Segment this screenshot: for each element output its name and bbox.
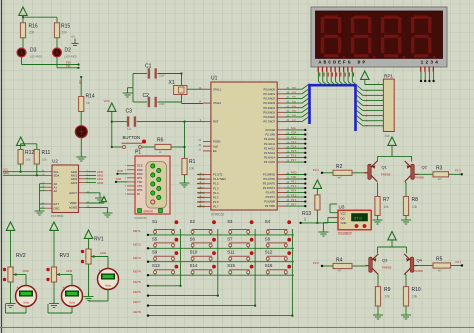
svg-text:R5: R5 [436,257,443,263]
svg-text:P3.2/INT0: P3.2/INT0 [263,182,276,186]
svg-text:P3.7: P3.7 [291,202,297,206]
svg-text:10k: 10k [385,295,391,299]
svg-text:D3: D3 [30,48,37,54]
svg-text:Volts: Volts [105,284,112,288]
svg-text:KEY8: KEY8 [133,310,141,314]
svg-text:P3.2: P3.2 [291,180,297,184]
svg-text:P2.4/A12: P2.4/A12 [264,146,276,150]
svg-text:10k: 10k [189,167,195,171]
svg-text:R14: R14 [86,94,95,100]
svg-text:+: + [63,285,65,289]
svg-text:10k: 10k [412,205,418,209]
svg-text:AIN1: AIN1 [66,269,73,273]
svg-text:RV1: RV1 [94,237,104,243]
svg-text:C2: C2 [143,93,150,99]
svg-text:10k: 10k [42,158,47,162]
svg-text:10k: 10k [384,205,390,209]
svg-text:R3: R3 [436,166,443,172]
svg-text:4k7: 4k7 [338,176,343,180]
svg-text:Q2: Q2 [422,165,428,170]
svg-text:KEY7: KEY7 [133,300,141,304]
svg-text:U3: U3 [339,205,345,210]
svg-text:P2.2/A10: P2.2/A10 [264,137,276,141]
svg-text:P20: P20 [66,60,71,64]
svg-text:U2: U2 [52,159,58,164]
svg-text:OSC: OSC [54,206,60,210]
svg-text:S12: S12 [265,250,273,255]
svg-text:AT89C52: AT89C52 [211,213,224,217]
svg-text:S6: S6 [190,236,196,241]
svg-text:R11: R11 [42,150,51,156]
svg-text:ABCDEFG DP: ABCDEFG DP [319,59,368,65]
svg-text:PN4356: PN4356 [381,173,391,177]
svg-text:P2.3: P2.3 [291,140,297,144]
svg-text:TXD: TXD [291,175,296,179]
svg-text:TXD: TXD [137,180,142,184]
svg-text:P3.3: P3.3 [291,184,297,188]
svg-text:P1: P1 [135,150,141,156]
svg-text:RST: RST [213,120,219,124]
svg-text:X1: X1 [169,80,175,86]
svg-text:COMPIM: COMPIM [134,216,147,220]
svg-text:10k: 10k [26,158,31,162]
svg-text:1k: 1k [86,101,90,105]
svg-text:C1: C1 [145,64,152,70]
svg-text:P3.4: P3.4 [291,189,297,193]
svg-text:P3.1/TXD: P3.1/TXD [263,177,275,181]
svg-text:R1: R1 [189,159,196,165]
svg-text:P2.5/A13: P2.5/A13 [264,151,276,155]
svg-text:P21: P21 [66,64,71,68]
svg-text:P2.4: P2.4 [313,168,319,172]
svg-text:22pF: 22pF [159,103,165,106]
svg-text:EA: EA [213,149,217,153]
svg-text:VREF: VREF [70,201,78,205]
svg-text:S13: S13 [152,263,160,268]
svg-text:P1.1/T2EX: P1.1/T2EX [213,177,226,181]
svg-text:4k7: 4k7 [438,177,443,181]
svg-text:AOUT: AOUT [69,191,77,195]
svg-text:DS18B20: DS18B20 [338,232,352,236]
svg-text:R4: R4 [336,258,343,264]
svg-text:DTR: DTR [137,188,142,192]
svg-text:R15: R15 [61,24,70,30]
svg-text:KEY6: KEY6 [133,290,141,294]
svg-text:P0.2/AD2: P0.2/AD2 [263,97,275,101]
svg-text:CTS: CTS [137,184,142,188]
svg-text:RXD: RXD [291,171,297,175]
svg-text:P3.5: P3.5 [291,193,297,197]
svg-text:P3.5/T1: P3.5/T1 [266,195,276,199]
svg-text:P2.0/A8: P2.0/A8 [265,128,275,132]
svg-text:27.0: 27.0 [354,215,363,220]
svg-text:R8: R8 [412,197,419,203]
svg-text:1uF: 1uF [127,128,132,131]
svg-text:PN4356: PN4356 [382,266,392,270]
svg-text:P1.4: P1.4 [213,191,219,195]
svg-text:GND: GND [341,221,347,225]
svg-text:R6: R6 [157,138,164,144]
svg-text:P0.4/AD4: P0.4/AD4 [263,106,275,110]
svg-text:P3.4/T0: P3.4/T0 [266,191,276,195]
svg-text:P2.6: P2.6 [313,261,319,265]
svg-text:P0.3/AD3: P0.3/AD3 [263,101,275,105]
svg-text:RV3: RV3 [60,253,70,259]
svg-text:KEY2: KEY2 [133,243,141,247]
svg-text:P1.3: P1.3 [213,186,219,190]
svg-text:P2.2: P2.2 [291,135,297,139]
svg-text:+: + [99,268,101,272]
svg-text:LED-RED: LED-RED [65,54,77,58]
svg-text:XTAL2: XTAL2 [213,101,222,105]
svg-text:S15: S15 [227,263,235,268]
svg-text:P1.0/T2: P1.0/T2 [213,173,223,177]
svg-text:VCC: VCC [104,99,111,103]
svg-text:4k7: 4k7 [438,269,443,273]
svg-text:P2.5: P2.5 [291,149,297,153]
svg-text:DSR: DSR [137,168,143,172]
svg-text:P3.6: P3.6 [291,198,297,202]
svg-text:R10: R10 [412,287,421,293]
svg-text:R9: R9 [384,287,391,293]
svg-text:AIN0: AIN0 [23,269,30,273]
svg-text:P0.6/AD6: P0.6/AD6 [263,115,275,119]
svg-text:RXD: RXD [137,172,143,176]
svg-text:KEY7: KEY7 [198,200,205,204]
svg-text:KEY1: KEY1 [133,229,141,233]
svg-text:KEY3: KEY3 [198,182,205,186]
svg-text:BUTTON: BUTTON [123,135,141,140]
svg-text:ALE: ALE [213,144,218,148]
svg-text:P2.7: P2.7 [456,260,462,264]
svg-text:Q1: Q1 [382,165,388,170]
svg-text:R7: R7 [383,197,390,203]
svg-text:S9: S9 [152,250,158,255]
svg-text:S8: S8 [265,236,271,241]
svg-text:XTAL1: XTAL1 [213,87,222,91]
svg-text:4k7: 4k7 [303,216,307,221]
svg-text:S14: S14 [190,263,198,268]
svg-text:+: + [17,285,19,289]
svg-text:P3.0/RXD: P3.0/RXD [263,173,275,177]
svg-text:R16: R16 [29,24,38,30]
svg-text:P1.5: P1.5 [213,195,219,199]
svg-text:R12: R12 [25,150,34,156]
svg-text:P1.6: P1.6 [213,200,219,204]
svg-text:ERROR: ERROR [144,209,153,213]
svg-text:S1: S1 [152,219,158,224]
svg-text:KEY6: KEY6 [198,195,205,199]
svg-text:DQ: DQ [341,216,345,220]
svg-text:TXD: TXD [116,177,122,181]
svg-text:4k7: 4k7 [338,269,343,273]
svg-text:DCD: DCD [137,164,143,168]
svg-text:S3: S3 [227,219,233,224]
svg-text:D2: D2 [65,48,72,54]
svg-text:S2: S2 [190,219,196,224]
svg-text:LED-RED: LED-RED [30,54,42,58]
svg-text:S11: S11 [227,250,235,255]
svg-text:P3.6/WR: P3.6/WR [264,200,275,204]
svg-text:PSEN: PSEN [213,140,220,144]
svg-text:KEY1: KEY1 [198,173,205,177]
svg-text:KEY4: KEY4 [133,269,141,273]
svg-text:S7: S7 [227,236,233,241]
svg-text:C3: C3 [126,109,133,115]
svg-text:Volts: Volts [23,301,30,305]
svg-text:Q4: Q4 [417,258,423,263]
svg-text:KEY5: KEY5 [198,191,205,195]
svg-text:P2.6: P2.6 [291,154,297,158]
svg-text:S10: S10 [190,250,198,255]
svg-text:RI: RI [137,192,140,196]
svg-text:AGND: AGND [69,206,77,210]
svg-text:P0.1/AD1: P0.1/AD1 [263,92,275,96]
svg-text:PCF8591: PCF8591 [51,214,64,218]
svg-text:RP1: RP1 [384,74,393,79]
svg-text:RTS: RTS [137,176,142,180]
svg-text:KEY2: KEY2 [198,177,205,181]
svg-text:S16: S16 [265,263,273,268]
svg-text:P2.5: P2.5 [455,169,461,173]
svg-text:KEY3: KEY3 [133,256,141,260]
svg-text:P37: P37 [78,80,81,85]
svg-text:S5: S5 [152,236,158,241]
svg-text:P0.7/AD7: P0.7/AD7 [263,120,275,124]
svg-text:P2.1/A9: P2.1/A9 [265,133,275,137]
svg-text:P2.7/A15: P2.7/A15 [264,160,276,164]
svg-text:P3.7/RD: P3.7/RD [265,204,275,208]
svg-text:Q3: Q3 [382,258,388,263]
svg-text:10k: 10k [412,295,418,299]
svg-text:R2: R2 [336,164,343,170]
svg-text:10k: 10k [385,134,391,138]
svg-text:RXD: RXD [117,169,123,173]
svg-text:SDA: SDA [54,174,60,178]
svg-text:U1: U1 [211,76,218,82]
svg-text:22pF: 22pF [159,75,165,78]
svg-text:SDA: SDA [291,131,297,135]
svg-text:PN4356: PN4356 [415,176,425,180]
svg-text:KEY5: KEY5 [133,280,141,284]
svg-text:P1.7: P1.7 [213,205,219,209]
svg-text:A2: A2 [54,189,58,193]
svg-text:AIN2: AIN2 [100,251,107,255]
svg-text:KEY8: KEY8 [198,204,205,208]
svg-text:AIN3: AIN3 [71,181,78,185]
svg-text:P3.3/INT1: P3.3/INT1 [263,186,276,190]
svg-text:AIN3: AIN3 [97,181,104,185]
svg-text:P0.0/AD0: P0.0/AD0 [263,87,275,91]
svg-text:200: 200 [62,31,68,35]
svg-text:PN4356: PN4356 [414,269,424,273]
svg-text:+5V: +5V [71,35,76,39]
svg-text:P1.2: P1.2 [213,182,219,186]
svg-text:P2.6/A14: P2.6/A14 [264,156,276,160]
svg-text:P2.7: P2.7 [291,158,297,162]
svg-text:VCC: VCC [341,212,347,216]
svg-text:SDA: SDA [3,171,9,175]
svg-text:P0.5/AD5: P0.5/AD5 [263,110,275,114]
svg-text:KEY4: KEY4 [198,186,205,190]
svg-text:S4: S4 [265,219,271,224]
svg-text:RV2: RV2 [16,253,26,259]
svg-text:R13: R13 [302,211,311,217]
svg-text:P2.3/A11: P2.3/A11 [264,142,275,146]
svg-text:Volts: Volts [69,301,76,305]
svg-text:SCL: SCL [291,126,297,130]
svg-text:200: 200 [29,31,35,35]
svg-text:1234: 1234 [421,59,441,65]
svg-text:P2.4: P2.4 [291,144,297,148]
